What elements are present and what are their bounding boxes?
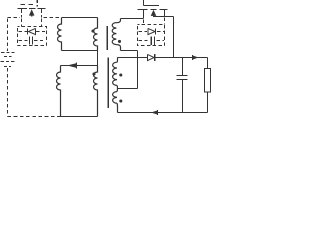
stub drain to box — [21, 19, 23, 27]
T2 primary right edge winding — [94, 66, 98, 117]
wire T1 secondary bottom to tap vertical — [121, 50, 138, 52]
arrow back bar output — [192, 55, 194, 60]
plate short 1 — [4, 56, 12, 58]
wire dashed input rail top left — [8, 17, 21, 19]
stub source to box — [41, 19, 43, 27]
T2 secondary winding (center-tapped) — [113, 58, 123, 113]
capacitor C2 leads (dashed) — [139, 40, 165, 42]
channel bar body — [151, 9, 157, 11]
secondary bottom corner — [116, 103, 119, 112]
body stem — [31, 13, 33, 17]
secondary top corner — [116, 58, 119, 63]
secondary bumps — [112, 23, 116, 45]
capacitor C1 leads (dashed) — [19, 40, 46, 42]
diode D3 (points right) — [148, 54, 155, 60]
wire center tap to tap vertical — [118, 88, 138, 90]
plate long 2 — [1, 61, 16, 63]
channel bar body — [29, 8, 36, 10]
current arrow left on bottom rail (filled) — [151, 110, 158, 114]
secondary lower bumps — [113, 92, 117, 104]
wire diode D3 to load — [155, 57, 208, 59]
wire T1 secondary top to Q2 drain — [121, 18, 144, 20]
box outline — [138, 25, 165, 46]
wire tap vertical — [137, 51, 139, 89]
source stem — [41, 9, 43, 14]
T1 secondary winding — [112, 19, 121, 51]
plate long 1 — [1, 52, 15, 54]
secondary upper bumps — [113, 62, 117, 85]
T1 primary bottom edge — [62, 50, 98, 52]
wire dashed bottom return rail — [8, 116, 61, 118]
wire bottom output rail — [118, 112, 208, 114]
T1 polarity dot secondary — [118, 40, 121, 43]
capacitor Cout top lead — [182, 58, 184, 76]
capacitor Cout bottom lead — [182, 80, 184, 113]
drain stem — [21, 9, 23, 14]
stub Q2 source to box — [164, 18, 166, 25]
bottom lead — [7, 68, 9, 117]
body arrow (filled) — [151, 10, 157, 16]
source stem — [164, 10, 166, 17]
T1 primary left edge winding — [58, 18, 62, 51]
T1 core bar — [106, 26, 108, 50]
battery Vin (dashed, inactive) — [1, 19, 16, 117]
channel bar drain — [138, 9, 148, 11]
capacitor Cout — [177, 76, 188, 80]
T2 primary top edge — [61, 65, 98, 67]
secondary bottom corner — [116, 45, 120, 51]
T2 secondary dot upper — [119, 73, 122, 76]
wire Q2 source to right vertical — [165, 16, 174, 18]
diode D1 leads — [19, 31, 46, 33]
T2 primary left edge winding — [57, 66, 61, 117]
body arrow (filled) — [29, 9, 35, 15]
T2 secondary dot lower — [119, 99, 122, 102]
diode D1 (points left) — [27, 28, 29, 34]
gate bar — [21, 4, 34, 6]
channel bar source — [160, 9, 168, 11]
plate short 2 — [4, 66, 11, 68]
gate lead — [143, 0, 145, 6]
arrow back bar bottom rail — [157, 110, 159, 115]
wire secondary top to diode D3 — [118, 57, 148, 59]
tap junction curl — [116, 85, 119, 91]
top lead — [7, 19, 9, 52]
T2 primary bottom edge — [61, 116, 98, 118]
T1 primary right edge winding — [94, 18, 98, 51]
wire loop1 to loop2 right connector — [97, 51, 99, 66]
T1 polarity dot primary — [91, 29, 94, 32]
channel bar source — [38, 8, 46, 10]
T2 core bar — [107, 58, 109, 109]
transistor Q1 (dashed MOSFET, inactive) — [18, 0, 46, 18]
clamp network box 2 (dashed) with D2 and C2 — [138, 18, 165, 46]
capacitor C2 — [151, 36, 154, 45]
wire right vertical down to output node — [173, 17, 175, 58]
capacitor C1 — [30, 37, 33, 45]
body stem + tie to source — [154, 13, 165, 17]
current arrow right on output wire (filled) — [192, 55, 198, 59]
channel bar drain — [18, 8, 28, 10]
arrow back bar — [76, 63, 78, 69]
T2 polarity dot primary — [92, 72, 95, 75]
drain stem — [143, 10, 145, 19]
wire dashed between MOSFET Q1 source and transformer T1 — [44, 17, 62, 19]
resistor R load — [205, 69, 211, 93]
diode D2 (points right) — [148, 28, 155, 34]
resistor R load top lead — [207, 58, 209, 69]
diode D2 leads — [139, 31, 165, 33]
resistor R load bottom lead — [207, 92, 209, 113]
stub Q2 drain to box — [143, 20, 145, 25]
T1 primary top edge — [62, 17, 98, 19]
gate bar — [144, 5, 160, 7]
clamp network box (dashed) with D1 and C1 — [18, 19, 47, 46]
secondary top terminal corner — [116, 19, 120, 23]
box outline — [18, 27, 47, 46]
current arrow left on T2 top edge (filled) — [67, 63, 76, 67]
gate lead — [36, 0, 38, 7]
